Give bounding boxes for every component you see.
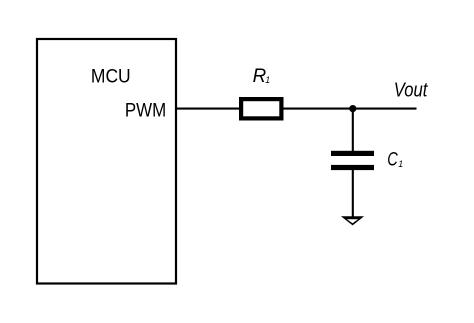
resistor R1 xyxy=(241,99,281,118)
svg-text:PWM: PWM xyxy=(125,99,166,121)
capacitor C1 bottom plate xyxy=(331,165,374,170)
wire C1 to ground xyxy=(352,170,354,218)
wire node to C1 xyxy=(352,109,354,152)
svg-text:Vout: Vout xyxy=(394,79,429,101)
node junction dot xyxy=(349,105,356,112)
svg-text:R: R xyxy=(253,65,267,87)
MCU block U1 xyxy=(37,39,176,284)
svg-text:1: 1 xyxy=(265,75,270,85)
svg-text:MCU: MCU xyxy=(91,65,131,87)
capacitor C1 top plate xyxy=(331,151,374,156)
wire R1 to Vout xyxy=(283,108,417,110)
ground symbol xyxy=(341,216,364,225)
svg-text:1: 1 xyxy=(398,159,403,169)
wire PWM pin to R1 xyxy=(177,108,240,110)
svg-text:C: C xyxy=(387,148,398,170)
